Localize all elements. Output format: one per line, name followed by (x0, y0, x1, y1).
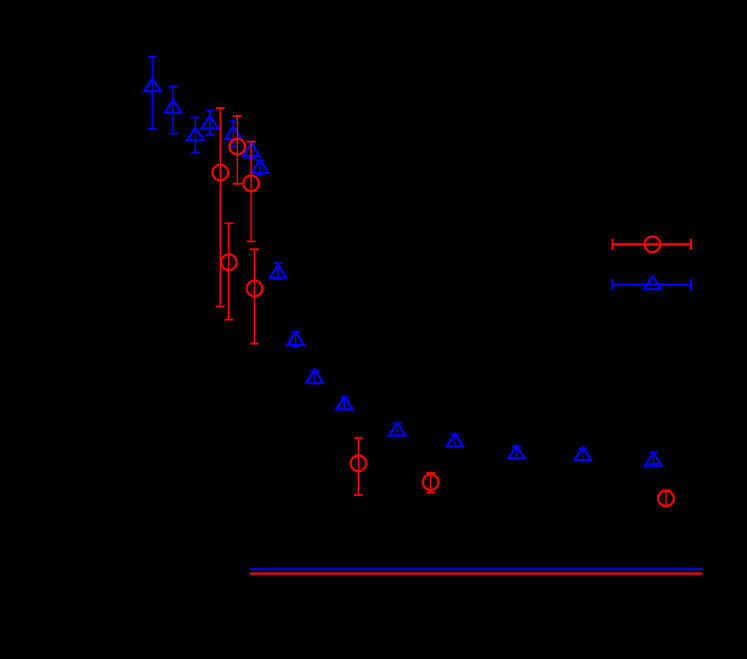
red circle marker R2 (213, 165, 229, 181)
blue triangle marker B8 (270, 265, 286, 278)
error bar blue point B13 (451, 435, 460, 447)
error bar red point R5 (250, 249, 259, 343)
blue triangle marker B4 (202, 116, 218, 129)
error bar blue point B7 (256, 160, 265, 175)
legend red circle marker (645, 237, 661, 253)
error bar red point R6 (354, 438, 363, 495)
red circle marker R5 (247, 281, 263, 297)
blue triangle marker B13 (447, 434, 463, 447)
blue triangle marker B11 (336, 397, 352, 410)
blue triangle marker B15 (575, 447, 591, 460)
blue triangle marker B12 (389, 423, 405, 436)
blue triangle marker B1 (144, 78, 160, 91)
red circle marker R7 (423, 474, 439, 490)
error bar red point R3 (247, 142, 256, 242)
error bar blue point B5 (229, 121, 238, 146)
legend blue entry line (613, 279, 692, 290)
blue triangle marker B5 (225, 126, 241, 139)
blue triangle marker B16 (645, 453, 661, 466)
blue triangle marker B6 (243, 143, 259, 156)
blue limit line (250, 568, 702, 570)
red circle marker R4 (221, 254, 237, 270)
error bar blue point B3 (191, 117, 200, 152)
blue triangle marker B7 (252, 160, 268, 173)
blue triangle marker B2 (165, 100, 181, 113)
error bar blue point B11 (340, 398, 349, 410)
error bar blue point B2 (169, 87, 178, 134)
red limit line (250, 572, 702, 574)
error bar blue point B1 (148, 57, 157, 129)
error bar blue point B12 (393, 424, 402, 436)
error bar blue point B15 (579, 449, 588, 461)
error bar red point R2 (216, 108, 225, 307)
error bar red point R1 (233, 116, 242, 184)
error bar blue point B10 (310, 371, 319, 384)
blue triangle marker B10 (307, 370, 323, 383)
legend blue triangle marker (644, 276, 660, 289)
error bar red point R4 (224, 223, 233, 319)
red circle marker R1 (230, 139, 246, 155)
error bar blue point B16 (649, 453, 658, 464)
error bar red point R8 (662, 491, 671, 506)
blue triangle marker B14 (508, 446, 524, 459)
red circle marker R3 (243, 176, 259, 192)
error bar blue point B9 (291, 332, 300, 346)
red circle marker R6 (351, 456, 367, 472)
error bar blue point B6 (247, 143, 256, 158)
error bar red point R7 (426, 473, 435, 493)
error bar blue point B14 (512, 447, 521, 459)
blue triangle marker B3 (187, 127, 203, 140)
legend red entry line (613, 239, 692, 250)
blue triangle marker B9 (288, 332, 304, 345)
red circle marker R8 (658, 491, 674, 507)
error bar blue point B8 (274, 263, 283, 279)
error bar blue point B4 (206, 111, 215, 135)
